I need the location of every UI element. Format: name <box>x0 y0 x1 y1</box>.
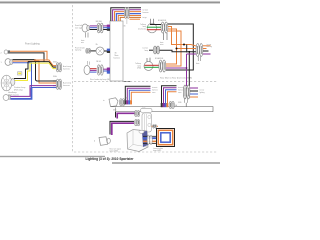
band cells g2 <box>161 103 163 107</box>
license connector <box>149 49 153 51</box>
turn signal bulb left <box>5 59 11 66</box>
wire purple thick 1 <box>117 113 134 118</box>
fender tip connector small <box>86 49 88 54</box>
wire purple g2 <box>164 88 177 103</box>
stub wires FL to harness <box>103 25 107 27</box>
svg-text:lamp: lamp <box>143 26 147 28</box>
drain wires FL <box>85 33 87 38</box>
lamp socket body <box>142 113 152 132</box>
wire purple thick 2 <box>112 123 134 135</box>
fender tip bulb <box>96 47 104 55</box>
harness edge blocks left <box>107 25 110 27</box>
svg-text:License: License <box>143 48 149 50</box>
svg-text:harness: harness <box>178 89 184 91</box>
headlamp <box>1 75 12 91</box>
connector FL turn <box>97 23 100 33</box>
wire orange marker <box>10 51 47 60</box>
svg-text:lamps (HDI): lamps (HDI) <box>110 151 119 153</box>
svg-text:harness: harness <box>114 58 120 60</box>
orange stub housing <box>152 125 159 127</box>
svg-text:(HDI): (HDI) <box>137 68 141 70</box>
wire black g1 <box>125 86 150 100</box>
connector tail 2 <box>159 60 162 72</box>
harness edge blocks left mid <box>107 49 110 51</box>
lamp socket top capsule <box>141 108 153 112</box>
wire blue g2 <box>166 90 177 103</box>
connector p1 <box>135 110 138 116</box>
rear fender tip lamp row <box>87 61 89 65</box>
wire purple vertical <box>186 54 188 86</box>
wire blue thick to coil <box>143 137 161 139</box>
connector terminal bars <box>57 64 59 70</box>
wire red rft <box>90 68 97 70</box>
wire green tail <box>147 26 161 28</box>
svg-text:harness: harness <box>63 68 70 71</box>
svg-text:conn: conn <box>178 92 182 94</box>
wire orange thick to coil <box>143 140 159 142</box>
footer rule right <box>112 162 220 163</box>
wire purple FL <box>90 25 97 27</box>
footer rule left <box>0 156 105 157</box>
connector g1 <box>120 99 123 106</box>
purple pair 1 <box>115 112 117 118</box>
ground stub lamp <box>115 108 117 112</box>
wire purple g1 <box>127 88 150 100</box>
wire blue g1 <box>129 90 150 100</box>
drains tail <box>163 33 165 40</box>
license plate coil box <box>157 129 175 147</box>
wire black g2 <box>162 86 177 103</box>
inline connector top <box>124 7 127 18</box>
svg-text:Lighting (3 of 3): 2010 Sports: Lighting (3 of 3): 2010 Sportster <box>86 157 135 161</box>
front left turn lamp <box>82 24 88 32</box>
wire blue rft <box>90 71 97 73</box>
connector g2 <box>169 101 172 108</box>
svg-text:lamp (HDI): lamp (HDI) <box>153 150 162 152</box>
wire orange g1 <box>131 92 150 100</box>
wire purple right <box>166 67 187 69</box>
wire orange to 36B <box>34 60 53 66</box>
vertical connector bottom right <box>183 85 186 99</box>
svg-text:(HDI only): (HDI only) <box>14 90 23 92</box>
wire black short vertical <box>186 45 188 53</box>
wire black tail out <box>166 24 193 70</box>
junction dots <box>183 44 185 46</box>
harness edge block FL <box>108 25 111 27</box>
svg-text:d: d <box>94 141 95 143</box>
wire black FL <box>90 29 97 31</box>
panel divider dashed horizontal mid <box>74 81 218 83</box>
wire purple rft <box>90 69 97 71</box>
wire green tail2 <box>145 66 159 68</box>
wire red tail <box>147 29 161 31</box>
tail lamp 2 bulb <box>144 62 153 71</box>
wire black marker <box>10 53 44 62</box>
svg-text:lamp: lamp <box>138 65 142 67</box>
wire blue thick position <box>11 88 32 99</box>
wire black license <box>160 50 197 52</box>
rear harness exit mark <box>123 81 131 83</box>
svg-text:harness: harness <box>63 84 70 87</box>
wire brown top <box>120 17 141 21</box>
wire blue FL <box>90 27 97 29</box>
wire purple top <box>113 10 141 21</box>
wire orange bulb <box>13 61 54 83</box>
top header bar <box>0 0 220 3</box>
svg-text:lamp: lamp <box>142 106 146 108</box>
connector p2 <box>135 119 138 125</box>
svg-text:lamp: lamp <box>145 50 149 52</box>
svg-text:conn: conn <box>152 92 156 94</box>
svg-text:to: to <box>103 99 104 102</box>
purple pair 2 <box>110 121 134 134</box>
svg-text:Front Lighting: Front Lighting <box>25 42 40 45</box>
svg-text:to ign: to ign <box>143 16 147 19</box>
wire orange tail out C <box>166 31 181 66</box>
wire orange short below bundle <box>130 18 141 20</box>
wire black to coil upper <box>143 135 157 137</box>
wire yellow headlamp staircase <box>14 63 30 80</box>
panel divider dashed horizontal bottom <box>74 151 218 153</box>
stubs right of vert connector <box>190 87 198 89</box>
wire black headlamp staircase <box>14 62 28 79</box>
wire purple position <box>11 86 54 97</box>
svg-text:tip lamp: tip lamp <box>75 49 81 52</box>
wire black bulb <box>13 60 36 62</box>
wire black to bottom connector <box>188 52 190 86</box>
band cells g1 <box>124 100 126 104</box>
svg-text:harness: harness <box>143 11 149 14</box>
wire black fender tip <box>91 50 97 52</box>
wire orange tail out A <box>168 27 196 47</box>
wire red tail2 <box>145 64 159 66</box>
wire black to coil lower <box>143 142 157 144</box>
wire orange tail out B <box>166 29 177 64</box>
svg-text:harness: harness <box>152 89 158 91</box>
front marker lamp <box>4 50 8 54</box>
panel divider dashed vertical <box>72 5 74 152</box>
wire orange g2 <box>168 92 177 103</box>
svg-text:Rear Main to Rear (Domestic B1: Rear Main to Rear (Domestic B10B) <box>160 77 192 80</box>
wire blue top <box>116 14 141 21</box>
tail lamp bulb <box>147 23 157 33</box>
right connector <box>196 44 199 57</box>
long ground line <box>111 107 213 112</box>
wire black top <box>111 8 141 21</box>
position lamp <box>3 95 9 101</box>
wire black down to 36A <box>36 62 54 81</box>
svg-text:4B: 4B <box>126 97 128 99</box>
inline connector on coil wires <box>147 135 150 145</box>
svg-text:Rear fender tip lamp (HDI): Rear fender tip lamp (HDI) <box>90 78 111 81</box>
wire stub fender tip <box>104 50 108 52</box>
wire purple to conn <box>187 53 197 55</box>
wire black tail <box>150 24 161 26</box>
connector tail top <box>161 22 164 33</box>
wire black to 36B <box>28 62 53 68</box>
svg-text:36: 36 <box>124 25 126 27</box>
wire blue bulb <box>13 63 54 88</box>
connector rft <box>97 65 100 75</box>
main harness block <box>110 21 123 81</box>
wire orange top 2 <box>118 16 141 22</box>
3d tail lamp assembly <box>127 130 148 152</box>
wire orange branch <box>177 48 197 50</box>
wire orange top <box>115 12 142 21</box>
wire yellow to 36B <box>30 63 53 69</box>
